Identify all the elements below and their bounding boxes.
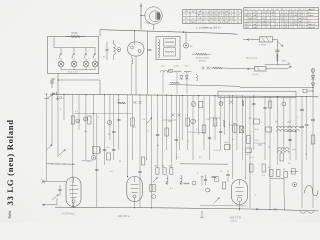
diode Det1 xyxy=(180,76,183,80)
coil L4 xyxy=(181,176,183,185)
rail x-mark xyxy=(274,208,277,211)
svg-text:5W: 5W xyxy=(162,166,165,168)
capacitor C10 xyxy=(156,133,159,135)
coil L5 xyxy=(196,75,198,81)
resistor R9 xyxy=(131,118,134,126)
wire tie 4 xyxy=(229,124,242,126)
node speaker tap xyxy=(140,5,142,7)
svg-text:1W: 1W xyxy=(236,15,239,17)
tone switch S8 xyxy=(214,198,220,204)
svg-text:565 27 W: 565 27 W xyxy=(230,216,242,220)
svg-text:x: x xyxy=(272,18,273,20)
wire drop x147.7 xyxy=(147,31,149,95)
resistor R11 xyxy=(186,118,190,126)
resistor R13 xyxy=(213,118,217,126)
svg-text:2: 2 xyxy=(255,195,256,197)
terminal earth xyxy=(42,204,57,206)
tube socket small 1 xyxy=(191,119,196,124)
wire y84.5 AVC rail xyxy=(169,85,240,87)
resistor R33 xyxy=(141,157,145,165)
pushbutton switch Ta4 xyxy=(92,48,98,70)
svg-text:2: 2 xyxy=(148,131,149,133)
node bus left xyxy=(50,92,54,96)
wire V1 grid left xyxy=(47,181,66,183)
wire mains vert xyxy=(276,40,278,65)
x-contact xyxy=(172,114,175,117)
svg-text:2: 2 xyxy=(188,141,189,143)
resistor R23 xyxy=(277,170,281,177)
switch S3 xyxy=(57,150,66,157)
box with X xyxy=(239,127,244,133)
resistor R19 xyxy=(156,168,159,174)
potentiometer P1 xyxy=(196,53,207,55)
trimmer C5 xyxy=(76,119,80,123)
wire main bus xyxy=(52,94,319,97)
wire upper rail segment xyxy=(200,204,246,207)
resistor R12 xyxy=(202,125,206,133)
pushbutton switch Ta2 xyxy=(71,48,77,70)
rail arrow xyxy=(256,208,258,210)
choke bumps A xyxy=(277,126,292,128)
svg-text:W: W xyxy=(249,15,251,17)
svg-text:0,5: 0,5 xyxy=(268,167,271,169)
svg-text:0,1 50: 0,1 50 xyxy=(214,150,220,152)
wire drop to IF can xyxy=(134,31,136,42)
resistor R16 xyxy=(247,136,251,144)
svg-text:0,1: 0,1 xyxy=(170,188,173,190)
wire y164 link xyxy=(180,163,228,165)
capacitor C24 xyxy=(226,173,229,175)
capacitor C9 xyxy=(112,130,115,132)
fuse holder xyxy=(303,89,307,93)
svg-text:RES: RES xyxy=(191,22,196,24)
capacitor C22 xyxy=(300,108,304,110)
svg-text:x: x xyxy=(304,21,305,23)
svg-text:W: W xyxy=(285,24,287,26)
svg-text:2000: 2000 xyxy=(224,142,228,144)
capacitor C16 xyxy=(288,138,291,140)
wire stub below rail xyxy=(201,211,203,218)
svg-text:2 M: 2 M xyxy=(117,100,121,102)
dial strip box xyxy=(218,91,296,97)
lamp La3 xyxy=(292,182,296,186)
wavy lead xyxy=(171,82,180,84)
svg-text:4: 4 xyxy=(98,117,99,119)
mains sag loops xyxy=(299,211,315,214)
choke bumps B xyxy=(288,126,299,128)
svg-text:WE 350 a: WE 350 a xyxy=(118,214,130,218)
svg-text:2: 2 xyxy=(297,117,298,119)
wire x100 drop xyxy=(99,80,101,95)
node rail junctions xyxy=(73,207,74,208)
wire AVC left link xyxy=(47,163,75,165)
wire tie 3 xyxy=(210,117,221,119)
wire drop to lamp xyxy=(185,32,187,43)
svg-text:1000: 1000 xyxy=(287,122,291,124)
wire bottom rail xyxy=(55,207,319,211)
svg-text:0,1 µF: 0,1 µF xyxy=(252,74,259,76)
wire bump drops xyxy=(162,73,164,94)
wire tuner bottom link xyxy=(61,69,95,71)
grid leak R14 xyxy=(223,120,225,127)
svg-text:Wellenschalter: Wellenschalter xyxy=(196,57,209,60)
IF coil bumps row1c xyxy=(184,71,191,72)
svg-text:u. Lichtleitung 220 V~: u. Lichtleitung 220 V~ xyxy=(196,25,222,29)
svg-text:25: 25 xyxy=(268,147,270,149)
svg-text:EH: EH xyxy=(192,11,195,13)
resistor R27 xyxy=(268,101,272,108)
svg-text:6: 6 xyxy=(60,109,61,111)
wire vertical drops from bus xyxy=(47,94,313,208)
capacitor C27 xyxy=(211,175,214,177)
bandfilter box BF1 xyxy=(156,37,180,60)
IF coil bumps row1b xyxy=(174,71,182,72)
wire x284 drop xyxy=(283,196,285,210)
switch S2 mains xyxy=(278,42,283,47)
small tube V4 xyxy=(232,124,237,134)
node extra dots xyxy=(127,176,128,177)
wire pu links xyxy=(270,178,284,180)
capacitor C14 xyxy=(300,125,304,127)
svg-text:A 204 blau: A 204 blau xyxy=(62,212,75,216)
capacitor C25 xyxy=(95,168,98,170)
IF trim rect xyxy=(169,69,173,72)
resistor R7 xyxy=(88,116,91,124)
svg-text:0,3: 0,3 xyxy=(176,157,179,159)
node right tap xyxy=(312,90,313,91)
capacitor C4 xyxy=(275,49,279,51)
resistor R4 xyxy=(255,66,267,71)
terminal antenna xyxy=(42,181,47,183)
svg-text:0,1: 0,1 xyxy=(75,111,78,113)
resistor R15 xyxy=(225,145,231,150)
resistor R3 vert xyxy=(276,54,278,60)
diode Det2 xyxy=(185,76,188,80)
wire y80 link xyxy=(58,79,100,81)
capacitor C26 xyxy=(138,170,141,172)
tick marks y118 xyxy=(249,117,252,119)
svg-text:geprüft: geprüft xyxy=(309,23,316,26)
switch S7 xyxy=(153,178,158,183)
svg-text:6,3: 6,3 xyxy=(288,163,291,165)
svg-text:33 LG (neu) Roland: 33 LG (neu) Roland xyxy=(5,119,15,205)
capacitor C7 xyxy=(117,118,120,120)
table tube-socket voltages xyxy=(183,10,242,24)
capacitor C13 xyxy=(219,130,222,132)
junction sprinkle xyxy=(295,131,296,132)
wire x58 drop xyxy=(57,74,59,95)
switch S6 xyxy=(52,195,59,201)
svg-text:6: 6 xyxy=(146,159,147,161)
svg-text:1W: 1W xyxy=(154,166,157,168)
switch S5 xyxy=(146,118,152,125)
valve heater pilot xyxy=(117,48,121,52)
wire y64.8 xyxy=(265,64,290,66)
svg-text:0,5: 0,5 xyxy=(199,157,202,159)
tuner box outline xyxy=(48,37,99,74)
resistor R10 xyxy=(165,128,169,136)
wire stub y161 xyxy=(82,160,93,162)
resistor R25 xyxy=(199,102,203,108)
resistor R18 xyxy=(311,135,315,144)
table measured values xyxy=(244,8,319,29)
wire lower coupling xyxy=(243,68,255,70)
svg-text:Netzanschl.: Netzanschl. xyxy=(246,56,258,59)
choke bumps C xyxy=(278,148,289,150)
valve V2 EBF xyxy=(127,177,143,207)
capacitor C15 xyxy=(311,118,315,120)
svg-text:10: 10 xyxy=(220,171,222,173)
box comp right xyxy=(254,119,260,124)
svg-text:1 W 50: 1 W 50 xyxy=(259,45,267,47)
wire y87.5 xyxy=(240,87,313,89)
resistor R6 xyxy=(71,116,74,124)
resistor R26 xyxy=(242,100,244,106)
terminal mark xyxy=(56,92,58,95)
coil L1 xyxy=(114,44,116,55)
wire tie 2 xyxy=(188,131,204,133)
resistor R29 xyxy=(262,164,266,172)
pushbutton switch Ta1 xyxy=(58,48,64,70)
res pair box xyxy=(266,127,272,132)
wire right links xyxy=(286,131,297,133)
IF transformer can T1 xyxy=(128,42,145,56)
svg-text:500: 500 xyxy=(275,122,278,124)
capacitor C2 xyxy=(106,48,109,50)
resistor R5 xyxy=(213,67,222,69)
comp x295 y172 xyxy=(292,169,296,175)
capacitor C19 xyxy=(252,102,255,104)
trimmer capacitor C1 xyxy=(51,78,53,88)
svg-text:3: 3 xyxy=(88,161,89,163)
resistor R1 on box top xyxy=(66,36,71,38)
wire speaker bottom xyxy=(153,24,155,30)
comp cluster x205 xyxy=(205,175,207,185)
resistor R32 xyxy=(107,153,111,160)
tube socket S-a xyxy=(191,102,196,107)
wire can drop xyxy=(135,56,137,95)
svg-text:W: W xyxy=(299,24,301,26)
xx contact marks xyxy=(134,101,137,104)
socket small 2 xyxy=(206,188,210,192)
pilot circle xyxy=(152,195,156,199)
trimmer C6 xyxy=(83,117,87,121)
socket cross xyxy=(107,120,111,124)
switch contact pair xyxy=(202,67,205,69)
wire to switch xyxy=(273,39,278,41)
svg-text:1 W: 1 W xyxy=(245,154,249,156)
svg-text:100 000: 100 000 xyxy=(199,60,206,62)
capacitor C23 xyxy=(305,123,309,125)
socket small 3 xyxy=(192,181,196,185)
svg-text:1 M: 1 M xyxy=(206,119,210,121)
svg-text:1W: 1W xyxy=(225,22,228,24)
svg-text:0,1: 0,1 xyxy=(232,139,235,141)
svg-text:geprüft: geprüft xyxy=(309,8,316,11)
svg-text:x: x xyxy=(246,21,247,23)
diode D1 xyxy=(311,76,315,80)
svg-text:50: 50 xyxy=(157,145,159,147)
resistor R31 xyxy=(222,182,226,189)
svg-text:W: W xyxy=(211,11,213,13)
resistor R8 xyxy=(118,102,126,104)
wire top bus xyxy=(100,30,238,35)
IF coil bumps row1a xyxy=(161,71,172,73)
wire tie 1 xyxy=(163,119,177,121)
trimmer C18 xyxy=(219,102,223,106)
switch S1 wave xyxy=(47,93,56,99)
svg-text:50: 50 xyxy=(305,154,307,156)
wire after R4 xyxy=(266,68,287,70)
coil L6 can lead xyxy=(132,58,134,64)
diode D2 xyxy=(311,83,315,86)
resistor R2 mains xyxy=(260,37,273,42)
resistor R20 xyxy=(163,168,166,174)
output transformer curl xyxy=(304,186,318,196)
trimmer C21 xyxy=(282,102,286,106)
resistor R28 xyxy=(250,164,254,172)
surge arrester F1 xyxy=(311,69,315,73)
wire tuner rail xyxy=(54,47,96,49)
svg-text:20: 20 xyxy=(119,161,121,163)
svg-text:6,3: 6,3 xyxy=(262,175,265,177)
valve V1 ECH xyxy=(66,177,81,207)
switch S4 xyxy=(47,145,52,151)
svg-text:500: 500 xyxy=(84,131,87,133)
svg-text:0,5 M: 0,5 M xyxy=(72,33,78,35)
node bus junctions xyxy=(46,94,303,98)
svg-text:geprüft: geprüft xyxy=(309,26,316,29)
x junction xyxy=(214,176,217,179)
svg-text:0,1: 0,1 xyxy=(133,127,136,129)
coil former xyxy=(92,147,99,154)
wire tie 5 xyxy=(254,142,265,144)
svg-text:5: 5 xyxy=(197,173,198,175)
speaker LS1 xyxy=(145,7,162,25)
capacitor C12 xyxy=(208,136,211,138)
svg-text:1 M: 1 M xyxy=(142,119,146,121)
node can junction xyxy=(147,49,148,50)
capacitor C8 xyxy=(103,148,106,150)
svg-text:2W: 2W xyxy=(169,166,172,168)
grid cap C17 xyxy=(58,188,61,190)
svg-text:1 W: 1 W xyxy=(250,157,254,159)
resistor R21 xyxy=(170,168,173,174)
svg-text:50: 50 xyxy=(283,169,285,171)
node top bus junction xyxy=(183,31,184,32)
svg-text:Ta 1 2 3 4: Ta 1 2 3 4 xyxy=(68,72,78,74)
capacitor C11 xyxy=(175,138,178,140)
svg-text:50: 50 xyxy=(108,134,110,136)
wire mains arrow xyxy=(243,39,260,41)
resistor R24 xyxy=(284,172,288,178)
capacitor C28 xyxy=(112,148,115,150)
coil L2 xyxy=(167,176,169,185)
svg-text:565 S: 565 S xyxy=(231,220,237,222)
wavy L3 xyxy=(184,183,190,184)
svg-text:Seibt: Seibt xyxy=(8,210,12,219)
box with zigzag xyxy=(150,184,155,192)
wire box A riser xyxy=(99,30,101,37)
svg-text:0,1: 0,1 xyxy=(185,115,188,117)
svg-text:gem.: gem. xyxy=(310,15,315,17)
wire right chain xyxy=(312,68,314,95)
pushbutton switch Ta3 xyxy=(83,48,89,70)
valve V3 EL xyxy=(232,180,248,211)
resistor R22 xyxy=(270,170,274,177)
term arrows mid xyxy=(201,176,202,178)
pilot lamp La1 xyxy=(184,43,189,48)
capacitor C20 xyxy=(263,106,266,108)
switch marks xyxy=(229,100,233,104)
pilot lamp La2 xyxy=(91,156,95,160)
svg-text:0,5: 0,5 xyxy=(196,129,199,131)
svg-text:5000: 5000 xyxy=(168,121,172,123)
node mains xyxy=(277,60,278,61)
ground symbol G1 xyxy=(57,96,59,99)
resistor R17 xyxy=(246,148,252,153)
resistor R30 xyxy=(280,153,284,161)
svg-text:0,5: 0,5 xyxy=(110,171,113,173)
wire speaker feed xyxy=(140,3,142,30)
wire second rail xyxy=(74,113,132,115)
svg-text:x: x xyxy=(286,12,287,14)
